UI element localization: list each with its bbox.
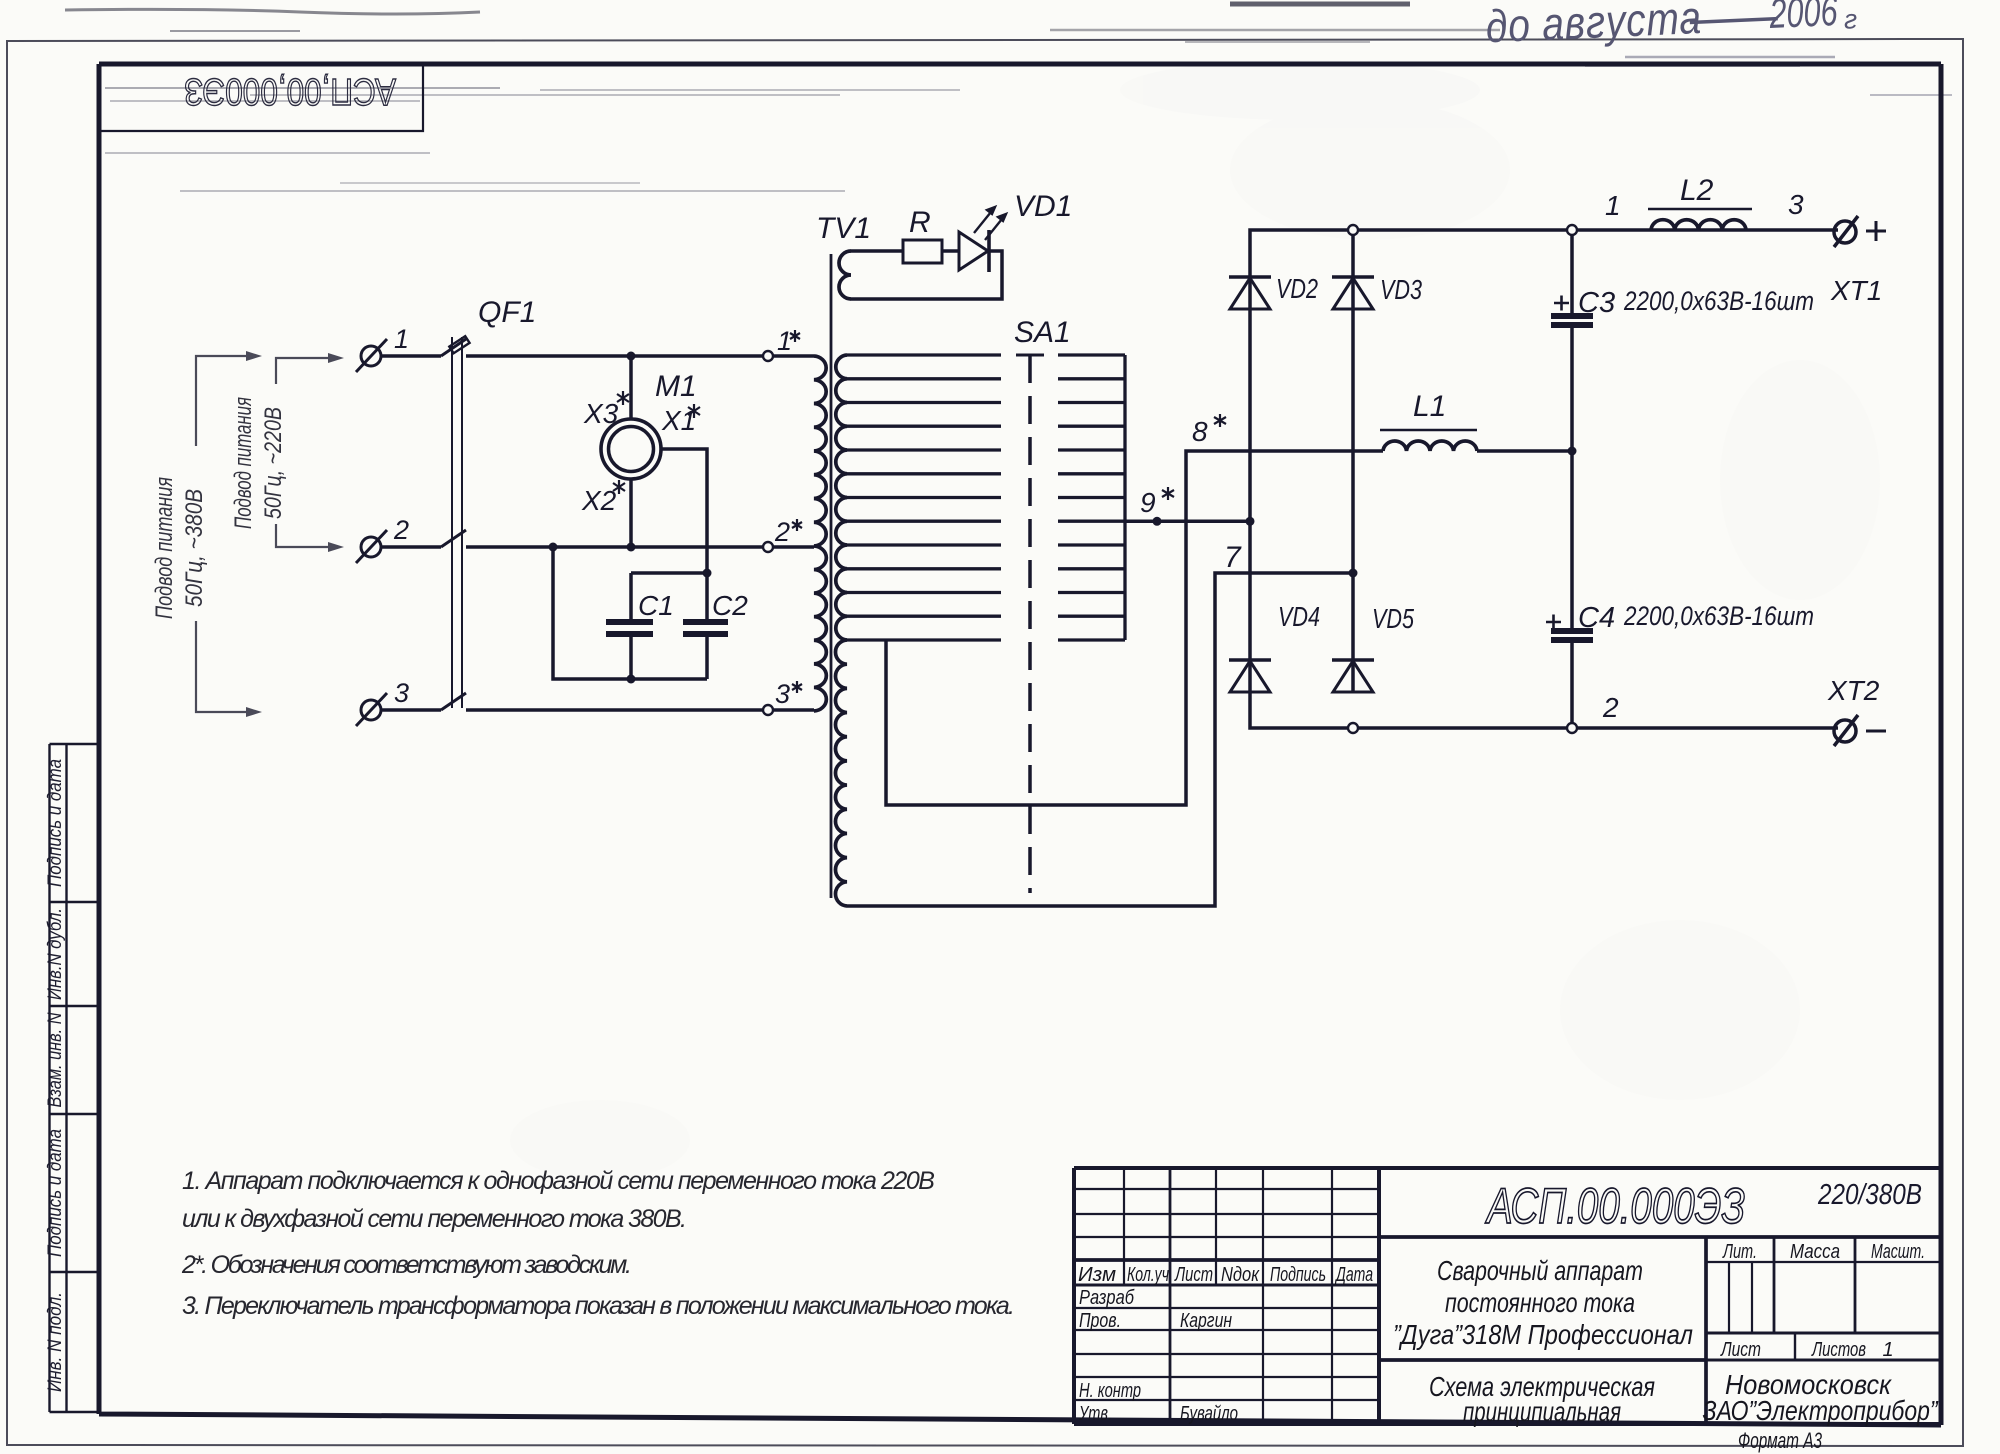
input terminal 3: [356, 693, 387, 726]
junction node 7: [1349, 569, 1358, 578]
terminal 1*: [763, 351, 773, 361]
svg-text:VD3: VD3: [1380, 274, 1422, 305]
transformer primary winding: [814, 356, 826, 711]
label Подвод питания 380В: [151, 477, 208, 619]
plus sign: [1866, 221, 1886, 241]
svg-text:Подвод питания: Подвод питания: [151, 477, 178, 619]
node VD3 top: [1348, 225, 1358, 235]
terminal XT2: [1834, 715, 1858, 746]
wire node 8*: [886, 451, 1383, 805]
junction 9*: [1153, 517, 1162, 526]
svg-text:3: 3: [775, 679, 790, 709]
svg-text:XT1: XT1: [1830, 275, 1882, 306]
svg-text:Н. контр: Н. контр: [1079, 1380, 1141, 1402]
wire line1 to motor: [629, 356, 633, 419]
svg-text:X3: X3: [583, 398, 619, 429]
wire 3* to transformer: [773, 708, 814, 712]
wire terminal3 to QF1: [381, 708, 441, 712]
inverted stamp box АСП.00.000ЭЗ: [101, 66, 423, 131]
svg-text:Лист: Лист: [1719, 1339, 1761, 1361]
input terminal 2: [356, 530, 387, 563]
svg-text:Масшт.: Масшт.: [1871, 1241, 1925, 1263]
svg-text:Сварочный аппарат: Сварочный аппарат: [1437, 1255, 1643, 1286]
wire terminal2 to QF1: [381, 545, 441, 549]
svg-text:QF1: QF1: [478, 296, 536, 329]
scan streak top-left: [65, 9, 480, 31]
terminal XT1: [1834, 216, 1858, 247]
left sidebar table: [50, 744, 98, 1412]
svg-text:TV1: TV1: [816, 212, 871, 245]
wire VD3 branch: [1351, 230, 1355, 693]
wire line2 QF1 to 2*: [466, 545, 763, 549]
svg-text:L1: L1: [1413, 390, 1446, 423]
node VD5 bottom: [1348, 723, 1358, 733]
svg-text:2: 2: [393, 515, 409, 545]
terminal 2*: [763, 542, 773, 552]
svg-text:Утв.: Утв.: [1078, 1403, 1112, 1425]
svg-text:Nдок: Nдок: [1221, 1264, 1260, 1286]
svg-text:2: 2: [774, 517, 790, 547]
wire R to VD1: [942, 249, 959, 253]
scan streaks inside frame top: [105, 88, 960, 191]
svg-text:8: 8: [1192, 416, 1208, 447]
switch SA1: [1028, 355, 1032, 893]
switch SA1 contacts: [1058, 355, 1125, 640]
resistor R: [903, 240, 942, 263]
svg-text:АСП,00,000ЭЗ: АСП,00,000ЭЗ: [184, 70, 396, 112]
node C4 bottom: [1567, 723, 1577, 733]
capacitor C4: [1570, 451, 1574, 728]
svg-text:до августа: до августа: [1485, 0, 1703, 52]
secondary winding taps: [847, 355, 1001, 640]
transformer core: [830, 254, 833, 898]
wire line1 QF1 to 1*: [466, 354, 763, 358]
feed bracket 380V: [196, 356, 248, 712]
wire terminal1 to QF1: [381, 354, 441, 358]
junction 9* at bridge: [1246, 517, 1255, 526]
svg-text:Подпись: Подпись: [1270, 1264, 1326, 1286]
wire indicator top: [851, 249, 903, 253]
minus sign: [1866, 730, 1886, 733]
handwritten date note: [1485, 0, 1858, 52]
svg-text:Подпись и дата: Подпись и дата: [45, 759, 66, 887]
svg-text:X2: X2: [581, 485, 617, 516]
wire VD1 return loop: [851, 251, 1002, 299]
svg-text:Лит.: Лит.: [1722, 1241, 1757, 1263]
wire motor to line2 (X2): [629, 479, 633, 547]
faint blue smear blotches: [510, 60, 1880, 1180]
svg-text:или к двухфазной сети переменн: или к двухфазной сети переменного тока 3…: [182, 1205, 687, 1233]
wire 2* to transformer: [773, 545, 814, 549]
svg-text:C4: C4: [1578, 602, 1615, 634]
svg-text:3. Переключатель трансформатор: 3. Переключатель трансформатора показан …: [182, 1292, 1015, 1320]
wire node 9*: [1125, 520, 1250, 524]
svg-text:Масса: Масса: [1790, 1241, 1840, 1263]
diode VD2: [1229, 277, 1271, 309]
svg-text:Каргин: Каргин: [1180, 1310, 1232, 1332]
capacitor C2: [705, 573, 709, 679]
transformer indicator winding: [839, 251, 851, 299]
inductor L2: [1651, 220, 1746, 230]
svg-text:1: 1: [1882, 1339, 1893, 1361]
junction line2 motor: [627, 543, 636, 552]
capacitor C1: [629, 573, 633, 679]
svg-text:ЗАО”Электроприбор”: ЗАО”Электроприбор”: [1703, 1395, 1939, 1426]
wire L1 to C node: [1477, 449, 1572, 453]
svg-text:2: 2: [1602, 692, 1619, 723]
svg-text:принципиальная: принципиальная: [1463, 1396, 1621, 1427]
LED arrows: [974, 207, 1006, 240]
svg-text:3: 3: [394, 678, 409, 708]
svg-text:M1: M1: [655, 370, 697, 403]
svg-text:1: 1: [394, 324, 409, 354]
junction X1 cap rail: [703, 569, 712, 578]
top positive bus: [1250, 230, 1838, 277]
input terminal 1: [356, 339, 387, 372]
node C3 top: [1567, 225, 1577, 235]
svg-text:50Гц, ~220В: 50Гц, ~220В: [260, 407, 287, 519]
svg-text:L2: L2: [1680, 174, 1714, 207]
circuit breaker QF1: [441, 336, 470, 710]
svg-text:220/380В: 220/380В: [1817, 1179, 1922, 1211]
svg-text:Инв.N дубл.: Инв.N дубл.: [45, 908, 66, 1000]
svg-text:3: 3: [1788, 189, 1804, 220]
inductor L1: [1383, 441, 1477, 451]
svg-text:9: 9: [1140, 487, 1156, 518]
junction L1 C3 C4: [1568, 447, 1577, 456]
svg-text:VD4: VD4: [1278, 601, 1320, 632]
svg-text:Подпись и дата: Подпись и дата: [45, 1129, 66, 1257]
svg-text:7: 7: [1224, 541, 1242, 574]
svg-text:VD5: VD5: [1372, 603, 1414, 634]
svg-text:Разраб: Разраб: [1079, 1287, 1135, 1309]
svg-text:2200,0х63В-16шт: 2200,0х63В-16шт: [1623, 601, 1814, 631]
motor M1: [601, 419, 661, 479]
terminal 3*: [763, 705, 773, 715]
svg-text:постоянного тока: постоянного тока: [1445, 1287, 1635, 1318]
feed bracket 220V: [276, 358, 330, 547]
svg-text:АСП.00.000ЭЗ: АСП.00.000ЭЗ: [1485, 1178, 1745, 1234]
svg-text:1. Аппарат подключается к одно: 1. Аппарат подключается к однофазной сет…: [182, 1167, 935, 1195]
wire motor X1: [661, 449, 707, 573]
junction line2 left: [549, 543, 558, 552]
svg-text:Бувайло: Бувайло: [1180, 1403, 1238, 1425]
svg-text:2200,0х63В-16шт: 2200,0х63В-16шт: [1623, 286, 1814, 316]
svg-text:VD1: VD1: [1014, 190, 1072, 223]
svg-text:R: R: [909, 206, 931, 239]
svg-text:Подвод питания: Подвод питания: [230, 397, 257, 529]
capacitor C3: [1570, 230, 1574, 451]
svg-text:C2: C2: [712, 590, 748, 621]
svg-text:50Гц, ~380В: 50Гц, ~380В: [181, 489, 208, 607]
bottom negative bus: [1250, 693, 1838, 728]
svg-text:2006: 2006: [1768, 0, 1839, 37]
label Подвод питания 220В: [230, 397, 287, 529]
svg-text:Дата: Дата: [1335, 1264, 1373, 1286]
svg-text:Формат А3: Формат А3: [1738, 1428, 1823, 1453]
wire 1* to transformer: [773, 354, 814, 358]
scan streaks under handwriting: [1585, 57, 1952, 95]
diode VD4: [1229, 660, 1271, 692]
svg-text:Листов: Листов: [1811, 1339, 1866, 1361]
svg-text:1: 1: [777, 326, 792, 356]
svg-text:Изм: Изм: [1078, 1264, 1116, 1286]
title block frame: [1074, 1168, 1941, 1424]
diode VD3: [1332, 277, 1374, 309]
wire cap top rail: [631, 571, 707, 575]
wire VD2 branch: [1248, 277, 1252, 693]
svg-text:Инв. N подл.: Инв. N подл.: [45, 1292, 66, 1392]
svg-text:Кол.уч: Кол.уч: [1127, 1264, 1169, 1286]
diode VD5: [1332, 660, 1374, 692]
wire node 7: [847, 573, 1353, 906]
svg-text:SA1: SA1: [1014, 316, 1071, 349]
svg-text:г: г: [1843, 4, 1858, 35]
wire line3 QF1 to 3*: [466, 708, 763, 712]
svg-text:”Дуга”318М Профессионал: ”Дуга”318М Профессионал: [1393, 1319, 1693, 1350]
wire cap branch left: [553, 547, 707, 679]
svg-text:Пров.: Пров.: [1079, 1310, 1121, 1332]
svg-text:Лист: Лист: [1174, 1264, 1213, 1286]
svg-text:2*. Обозначения соответствуют: 2*. Обозначения соответствуют заводским.: [181, 1251, 632, 1279]
LED VD1: [959, 230, 989, 272]
transformer secondary winding: [835, 355, 847, 906]
svg-text:C3: C3: [1578, 287, 1615, 319]
svg-text:Взам. инв. N: Взам. инв. N: [45, 1012, 66, 1107]
scan streak top-middle: [1050, 4, 1500, 42]
junction cap bottom: [627, 675, 636, 684]
junction on line1 at motor: [627, 352, 636, 361]
svg-text:VD2: VD2: [1276, 273, 1318, 304]
svg-text:1: 1: [1605, 190, 1621, 221]
svg-text:C1: C1: [638, 590, 674, 621]
svg-text:XT2: XT2: [1827, 675, 1880, 706]
